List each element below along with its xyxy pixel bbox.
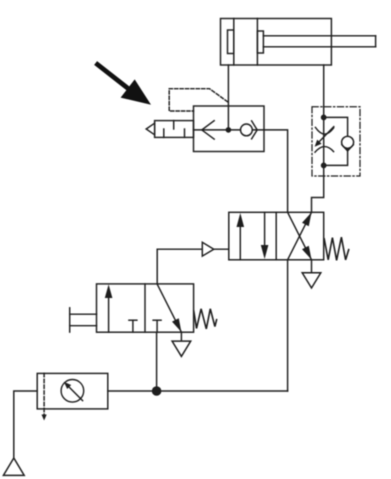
annotation arrow (pointer) xyxy=(98,65,152,105)
silencer on quick exhaust valve xyxy=(146,121,193,138)
return spring of 4/2 valve xyxy=(324,237,349,260)
4/2-way valve, pilot operated with spring return xyxy=(229,212,324,259)
wire: cylinder right port down through flow control to 4/2 valve top right xyxy=(312,65,324,212)
wire: quick exhaust output to 4/2 valve top left xyxy=(264,130,288,212)
exhaust of 3/2 valve xyxy=(172,332,191,356)
wire: supply distribution line xyxy=(108,390,288,392)
service unit (filter/regulator with gauge) xyxy=(37,373,108,420)
exhaust of 4/2 valve xyxy=(302,260,321,288)
compressed air supply source xyxy=(3,458,24,475)
wire: supply source to service unit xyxy=(14,391,37,458)
pilot actuator symbol of 4/2 valve xyxy=(202,242,229,256)
pilot line (dashed) of quick exhaust valve xyxy=(169,89,227,111)
plunger actuator of 3/2 valve xyxy=(70,308,97,332)
junction node xyxy=(152,386,162,396)
one-way flow control valve (dash-dot enclosure) xyxy=(312,107,360,176)
return spring of 3/2 valve xyxy=(194,309,217,329)
wire: 3/2 valve output up to pilot of 4/2 valve xyxy=(157,249,202,284)
wire: cylinder left port down to quick exhaust valve xyxy=(227,65,229,130)
cylinder (double-acting) xyxy=(221,19,376,66)
wire: riser to 4/2 valve supply port xyxy=(287,260,289,391)
wire: 3/2 valve supply down to distribution line xyxy=(156,332,158,391)
quick exhaust valve xyxy=(194,106,265,152)
3/2-way valve with plunger and spring return xyxy=(97,284,194,332)
